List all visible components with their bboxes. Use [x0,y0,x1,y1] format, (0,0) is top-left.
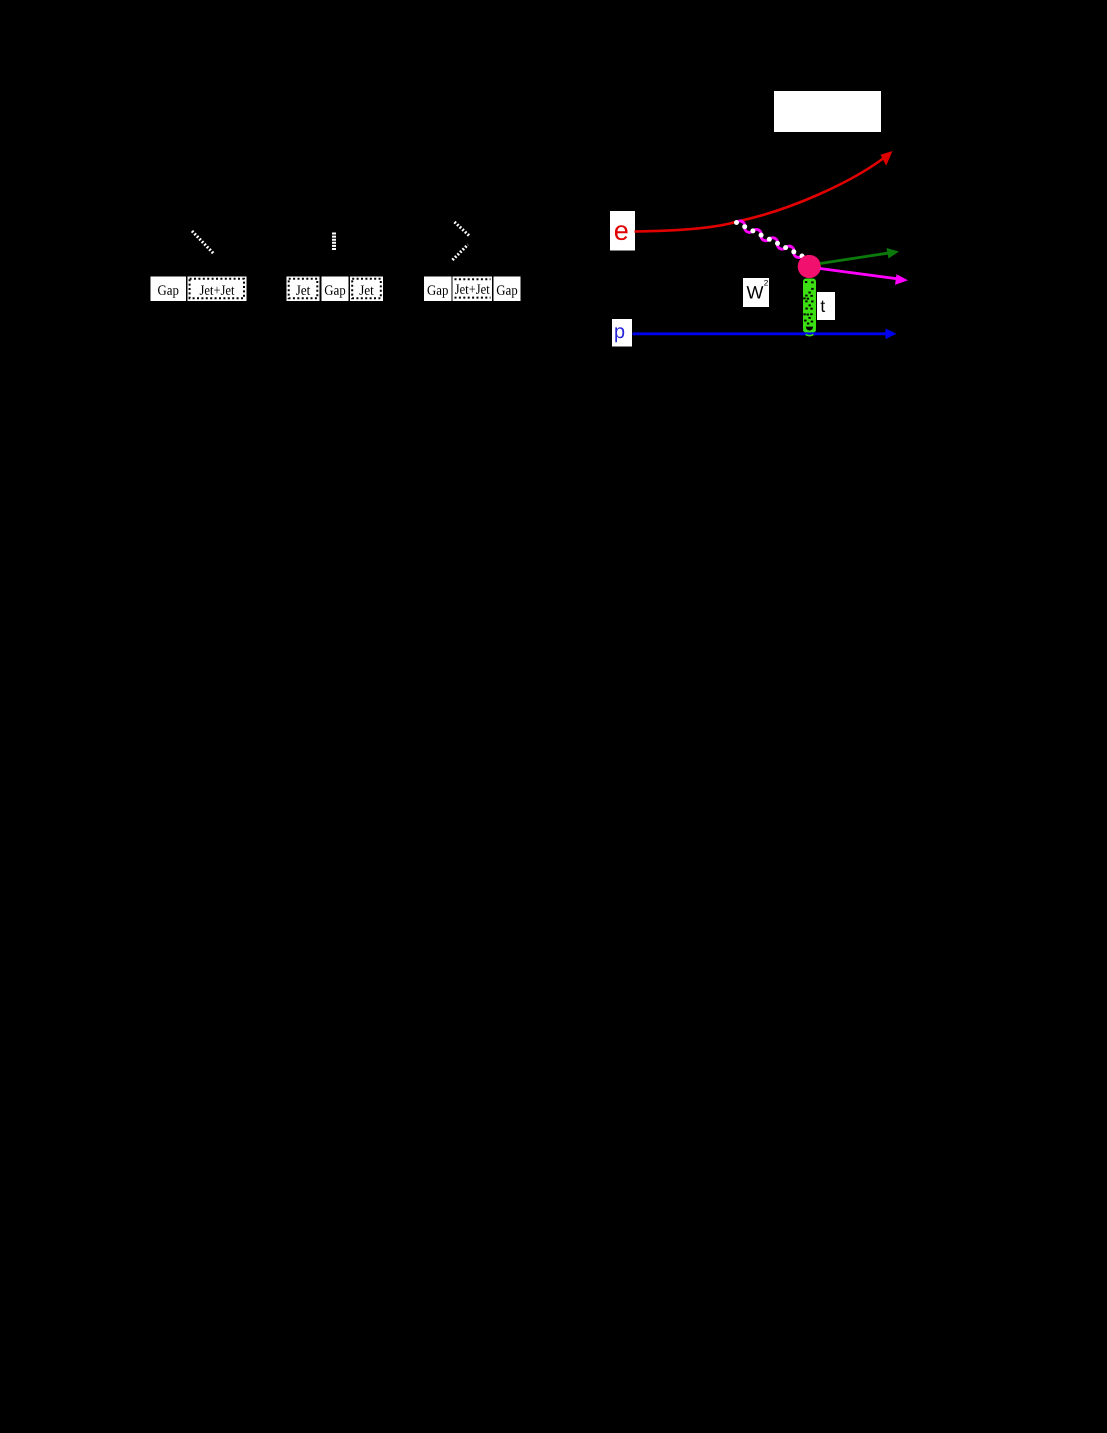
gluon ladder (green coil) [803,279,816,334]
diagram 2 Jet box right [350,277,383,302]
proton blue line [633,332,889,335]
diagram 2 Gap box [322,277,349,302]
diagram 2 Jet box left [287,277,320,302]
W^2 label box [743,278,769,307]
diagram 1 dashed jet mark [192,231,214,254]
red arrowhead [881,151,893,166]
interaction vertex blob [798,255,821,278]
diagram 3 Gap box left [424,277,452,302]
diagram 2 dashed jet mark (vertical) [332,233,336,252]
photon magenta curly line [737,221,803,257]
magenta parton arrow [820,269,899,280]
diagram 3 Jet+Jet box [453,277,493,302]
dark green parton arrow [820,253,890,264]
diagram 1 Gap box [151,277,187,302]
electron label box e [610,211,635,251]
diagram 3 Gap box right [494,277,521,302]
photon white dots [734,220,739,225]
scattered electron red curve [635,158,885,232]
empty white legend box [774,91,881,132]
t label box [817,292,835,320]
proton label box p [612,319,632,347]
diagram 3 dashed jet mark lower [453,245,469,261]
blue arrowhead [886,329,897,340]
gluon coil bottom loop sliver [806,334,814,335]
diagram 3 dashed jet mark upper [455,222,470,236]
diagram 1 Jet+Jet box [188,277,247,302]
